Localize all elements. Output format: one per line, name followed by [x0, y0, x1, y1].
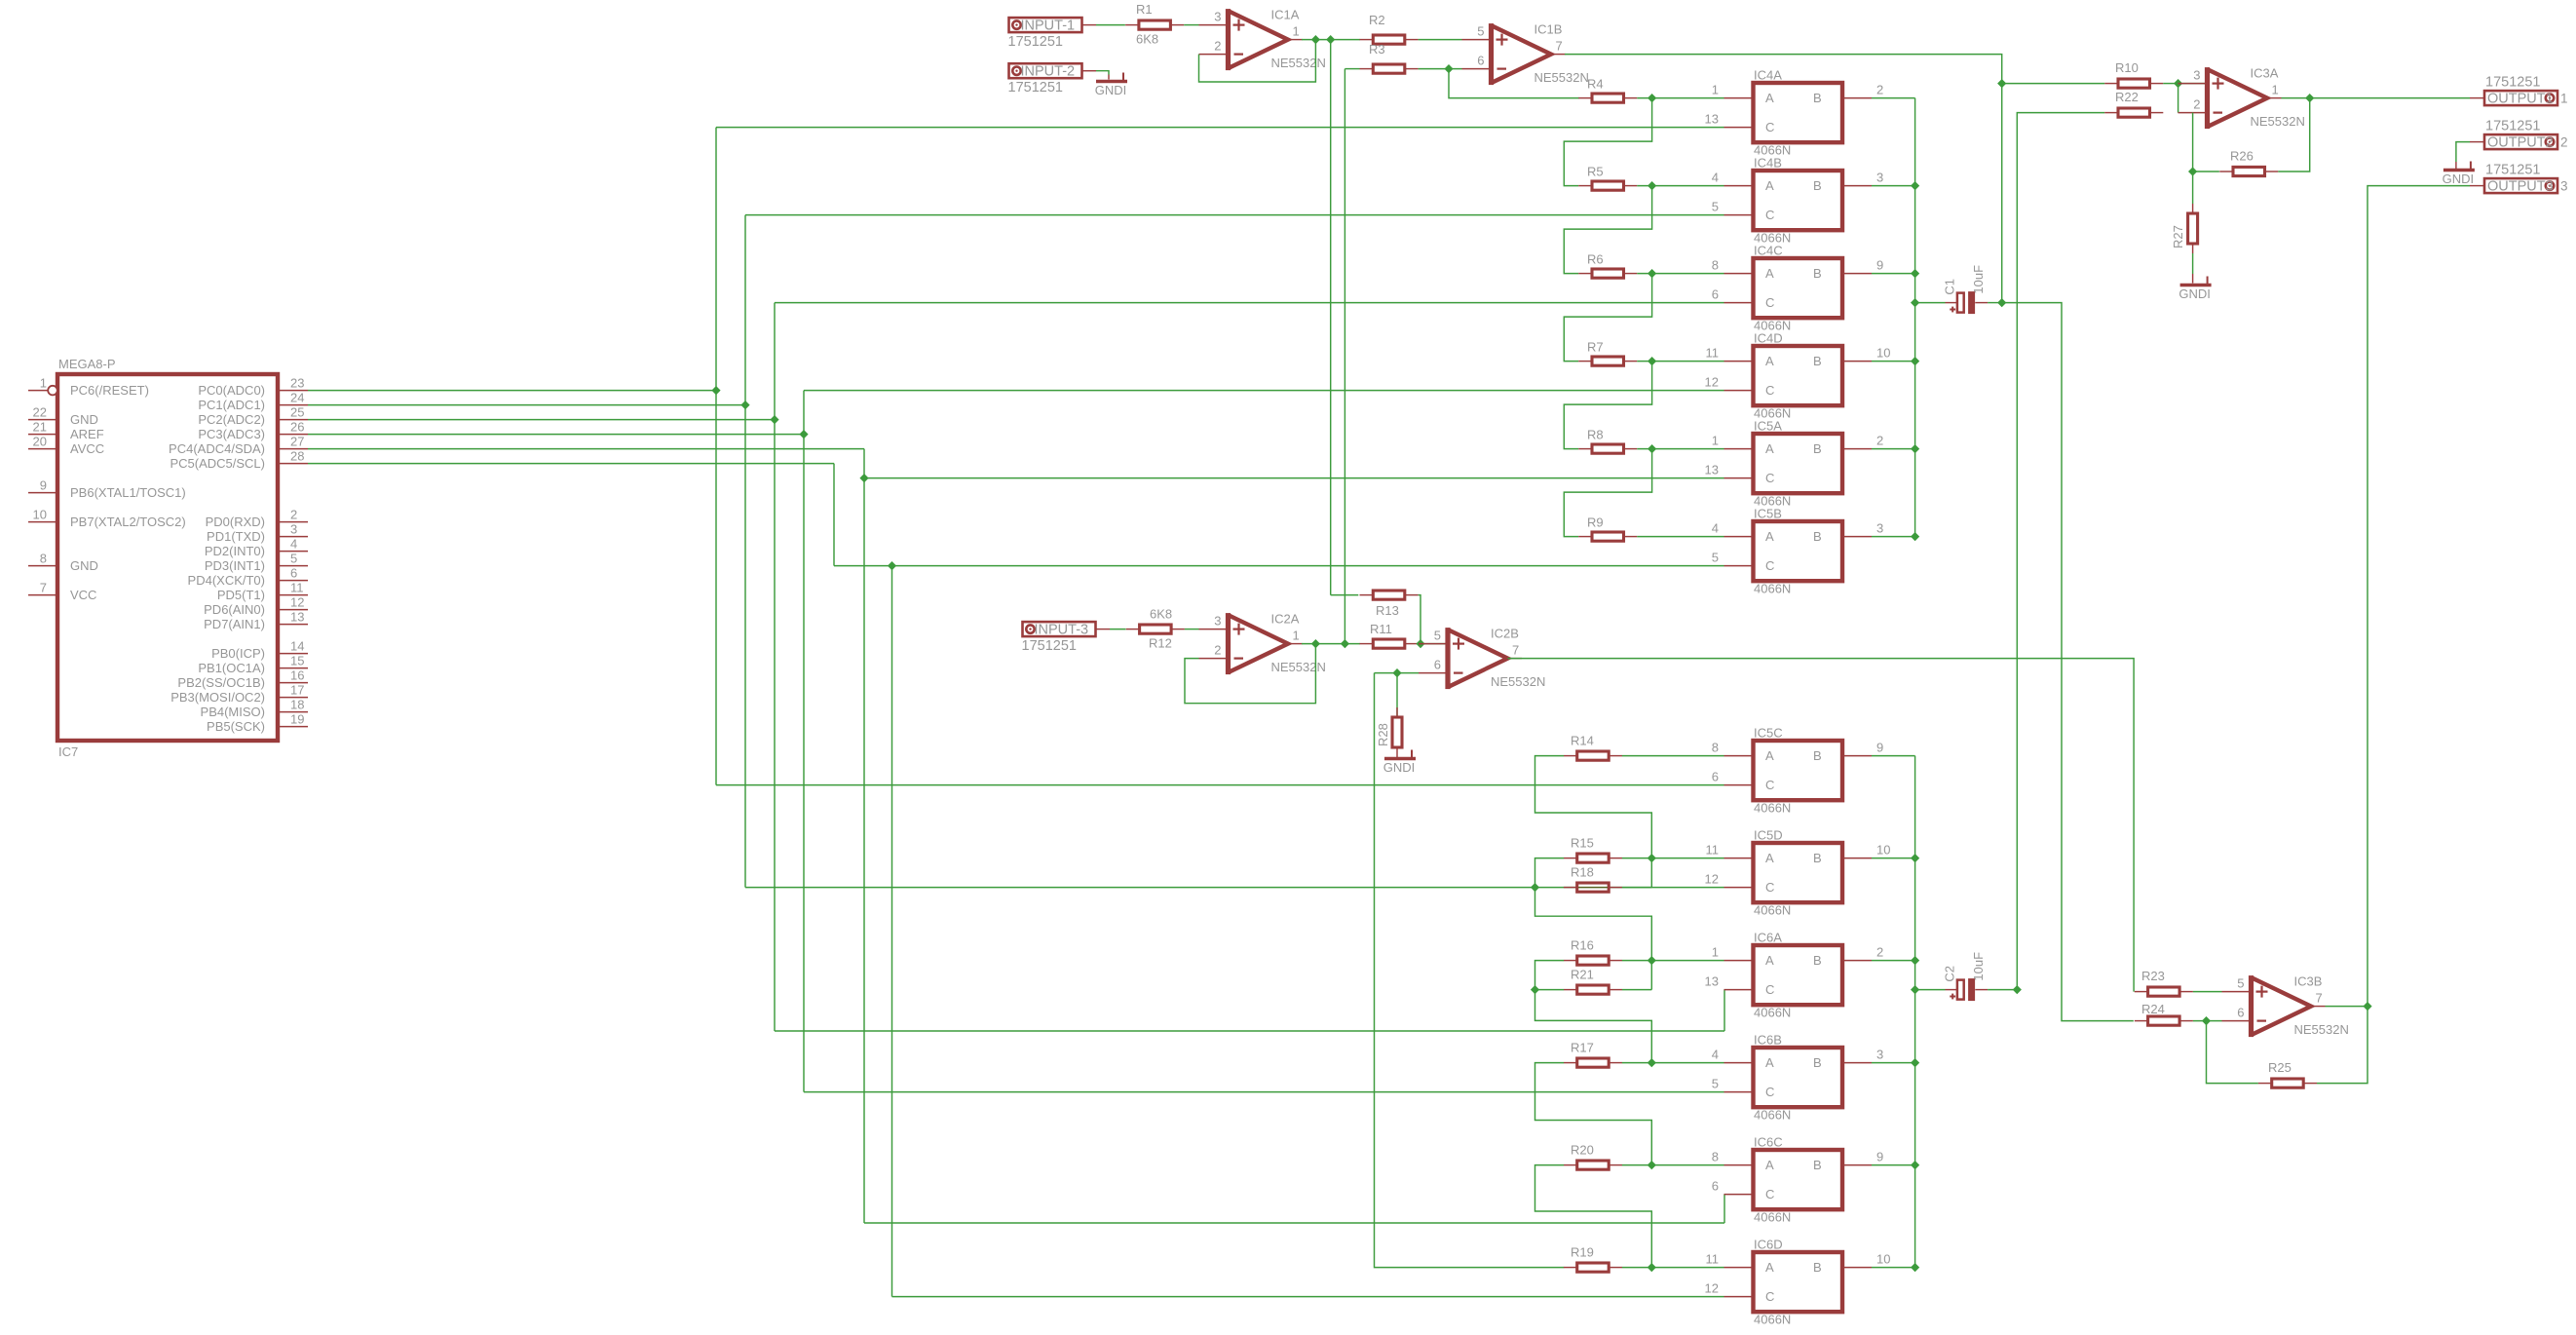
svg-text:R27: R27	[2171, 225, 2185, 248]
svg-text:3: 3	[1214, 614, 1221, 629]
wire OUTPUT2 to ground	[2456, 142, 2470, 162]
svg-text:B: B	[1813, 178, 1822, 193]
resistor R23	[2135, 991, 2148, 993]
wire top mix bus	[1914, 98, 1916, 537]
wire C2 to R22 riser	[1988, 989, 2017, 991]
svg-text:VCC: VCC	[70, 588, 96, 602]
svg-text:12: 12	[1705, 1281, 1719, 1296]
wire ladder jog R6 to R7	[1564, 274, 1651, 362]
wire IC2A out riser to R3	[1344, 69, 1345, 644]
svg-text:IC5A: IC5A	[1754, 419, 1782, 434]
resistor R25	[2258, 1083, 2272, 1085]
wire R9 output to switch	[1637, 536, 1724, 538]
svg-text:4: 4	[1712, 521, 1719, 536]
ground GNDI at OUTPUT2	[2443, 169, 2475, 172]
resistor R27	[2192, 204, 2194, 213]
wire IC4A output to bus	[1872, 97, 1915, 99]
wire IC6A output to bus	[1872, 960, 1915, 962]
svg-text:4066N: 4066N	[1754, 1210, 1791, 1225]
svg-text:1751251: 1751251	[1008, 34, 1063, 50]
svg-text:B: B	[1813, 91, 1822, 105]
svg-text:C: C	[1765, 295, 1774, 310]
resistor R1	[1125, 24, 1139, 26]
junction IC1B pin6 node	[1444, 64, 1453, 73]
svg-text:R17: R17	[1571, 1041, 1594, 1055]
junction IC2B pin6 node	[1392, 668, 1401, 677]
wire IC2A feedback loop	[1185, 644, 1315, 704]
svg-text:C1: C1	[1942, 279, 1956, 295]
svg-text:R10: R10	[2115, 60, 2139, 75]
svg-text:IC5C: IC5C	[1754, 726, 1783, 741]
svg-text:C: C	[1765, 208, 1774, 222]
wire R5 output to switch	[1637, 185, 1724, 187]
svg-text:IC4D: IC4D	[1754, 331, 1783, 346]
junction bottom bus at IC6D	[1911, 1263, 1919, 1272]
svg-text:B: B	[1813, 266, 1822, 281]
junction bus at IC5B	[1911, 532, 1919, 541]
svg-text:PC2(ADC2): PC2(ADC2)	[198, 412, 265, 427]
analog switch IC5C	[1754, 741, 1843, 800]
svg-text:NE5532N: NE5532N	[1271, 56, 1326, 70]
wire R17 input jog	[1535, 1063, 1652, 1165]
svg-text:13: 13	[1705, 112, 1719, 127]
svg-text:10: 10	[1876, 1252, 1890, 1267]
svg-text:IC4B: IC4B	[1754, 156, 1782, 171]
svg-text:10uF: 10uF	[1971, 265, 1986, 294]
wire IC1A out to R13	[1330, 40, 1332, 595]
svg-text:NE5532N: NE5532N	[2251, 114, 2305, 129]
op-amp IC1B	[1492, 25, 1552, 83]
wire R12 to IC2A pin3	[1185, 629, 1199, 630]
svg-text:15: 15	[290, 654, 304, 668]
IC7 pin 10 PB7(XTAL2/TOSC2)	[28, 521, 57, 523]
svg-text:5: 5	[1712, 551, 1719, 565]
svg-text:B: B	[1813, 354, 1822, 368]
wire control net PC5	[308, 463, 834, 465]
svg-text:5: 5	[1712, 1077, 1719, 1091]
resistor R20	[1564, 1164, 1577, 1166]
junction bottom bus at C2	[1911, 985, 1919, 994]
svg-text:NE5532N: NE5532N	[1491, 674, 1545, 689]
svg-text:9: 9	[40, 478, 47, 493]
svg-text:7: 7	[1512, 643, 1519, 658]
svg-text:9: 9	[1876, 741, 1883, 755]
IC7 pin 16 PB2(SS/OC1B)	[278, 682, 308, 684]
svg-text:A: A	[1765, 1158, 1774, 1172]
op-amp IC2A	[1229, 615, 1289, 672]
svg-text:R2: R2	[1369, 13, 1385, 27]
svg-text:5: 5	[2237, 976, 2244, 991]
junction node IC5D A	[1648, 854, 1656, 862]
analog switch IC6B	[1754, 1048, 1843, 1107]
svg-text:6: 6	[1477, 54, 1484, 68]
junction bottom bus at IC6A	[1911, 956, 1919, 965]
IC7 pin 1 PC6(/RESET)	[28, 390, 48, 392]
wire R25 to IC3B output	[2317, 1007, 2368, 1084]
svg-text:6K8: 6K8	[1150, 607, 1172, 622]
svg-text:PD5(T1): PD5(T1)	[217, 588, 265, 602]
wire IC1A feedback loop	[1199, 40, 1316, 82]
IC7 pin 3 PD1(TXD)	[278, 536, 308, 538]
resistor R15	[1564, 858, 1577, 859]
wire ladder jog R8 to R9	[1564, 449, 1651, 537]
svg-text:1751251: 1751251	[2485, 163, 2540, 178]
svg-text:R28: R28	[1376, 723, 1390, 746]
svg-text:10uF: 10uF	[1971, 952, 1986, 981]
wire IC3A output to OUTPUT1	[2282, 97, 2471, 99]
svg-text:R4: R4	[1587, 77, 1604, 92]
svg-text:PC0(ADC0): PC0(ADC0)	[198, 383, 265, 398]
resistor R11	[1360, 643, 1374, 645]
svg-text:PC6(/RESET): PC6(/RESET)	[70, 383, 149, 398]
IC7 pin 2 PD0(RXD)	[278, 521, 308, 523]
svg-text:3: 3	[290, 522, 297, 537]
IC7 pin 26 PC3(ADC3)	[278, 434, 308, 436]
wire control net PC2	[308, 419, 775, 421]
svg-text:8: 8	[40, 552, 47, 566]
wire IC4D output to bus	[1872, 361, 1915, 362]
svg-text:1: 1	[2560, 92, 2568, 106]
svg-text:6: 6	[1712, 287, 1719, 302]
capacitor C1 10uF	[1946, 302, 1957, 304]
resistor R10	[2104, 83, 2118, 85]
svg-text:3: 3	[2193, 68, 2200, 83]
svg-text:1: 1	[1293, 24, 1300, 39]
svg-text:GNDI: GNDI	[2178, 286, 2211, 301]
ground GNDI at INPUT-2	[1096, 80, 1127, 83]
svg-text:2: 2	[1876, 434, 1883, 448]
svg-text:6: 6	[2237, 1006, 2244, 1020]
svg-text:11: 11	[1706, 1252, 1720, 1267]
IC7 pin 15 PB1(OC1A)	[278, 667, 308, 669]
IC7 pin 18 PB4(MISO)	[278, 711, 308, 713]
svg-text:6: 6	[1434, 658, 1441, 672]
IC7 pin 6 PD4(XCK/T0)	[278, 580, 308, 582]
wire ladder jog R7 to R8	[1564, 362, 1651, 449]
wire R24 to IC3B pin6	[2193, 1020, 2222, 1022]
junction IC3B pin6 node	[2202, 1016, 2211, 1025]
wire R11 to IC2B pin5	[1419, 643, 1448, 645]
svg-text:1: 1	[1712, 83, 1719, 97]
IC7 pin 12 PD6(AIN0)	[278, 609, 308, 611]
wire IC5A output to bus	[1872, 448, 1915, 450]
svg-text:R12: R12	[1149, 636, 1172, 651]
svg-text:NE5532N: NE5532N	[1534, 70, 1589, 85]
wire IC1A output net	[1302, 39, 1360, 41]
svg-text:5: 5	[1477, 24, 1484, 39]
resistor R4	[1578, 97, 1592, 99]
wire R25 feedback left leg	[2207, 1021, 2258, 1084]
wire R18 output riser	[1622, 887, 1651, 889]
svg-text:3: 3	[2560, 179, 2568, 194]
resistor R6	[1578, 273, 1592, 275]
wire node to R26	[2193, 171, 2219, 172]
resistor R12	[1126, 629, 1140, 630]
svg-text:IC5B: IC5B	[1754, 507, 1782, 521]
svg-text:R19: R19	[1571, 1245, 1594, 1260]
svg-text:C: C	[1765, 778, 1774, 792]
wire R14 input jog	[1535, 756, 1652, 858]
resistor R21	[1564, 989, 1577, 991]
junction node IC6D A	[1648, 1263, 1656, 1272]
svg-text:IC1A: IC1A	[1271, 8, 1300, 22]
wire control net PC3	[308, 434, 804, 436]
svg-text:R8: R8	[1587, 428, 1604, 442]
wire R21 output riser	[1622, 989, 1651, 991]
junction C1 output node	[1997, 298, 2006, 307]
wire R6 output to switch	[1637, 273, 1724, 275]
svg-text:PD3(INT1): PD3(INT1)	[205, 558, 265, 573]
op-amp IC2B	[1448, 629, 1508, 687]
op-amp IC3A	[2208, 69, 2268, 127]
svg-text:PB7(XTAL2/TOSC2): PB7(XTAL2/TOSC2)	[70, 515, 186, 529]
svg-text:PC5(ADC5/SCL): PC5(ADC5/SCL)	[170, 456, 265, 471]
analog switch IC4C	[1754, 258, 1843, 318]
svg-text:A: A	[1765, 1260, 1774, 1275]
svg-text:B: B	[1813, 953, 1822, 968]
wire IC2B pin6 to R19 line	[1375, 673, 1565, 1268]
svg-text:IC6B: IC6B	[1754, 1033, 1782, 1048]
wire R20 input jog	[1535, 1165, 1652, 1268]
svg-text:R16: R16	[1571, 938, 1594, 953]
svg-text:3: 3	[1876, 171, 1883, 185]
svg-text:6: 6	[1712, 1179, 1719, 1194]
svg-text:R14: R14	[1571, 734, 1594, 748]
svg-text:A: A	[1765, 266, 1774, 281]
svg-text:2: 2	[2560, 135, 2568, 150]
resistor R14	[1564, 755, 1577, 757]
svg-text:4066N: 4066N	[1754, 1108, 1791, 1123]
wire R21 input stub	[1535, 989, 1565, 991]
svg-text:7: 7	[2316, 991, 2323, 1006]
IC7 pin 14 PB0(ICP)	[278, 653, 308, 655]
svg-text:R15: R15	[1571, 836, 1594, 851]
svg-text:C: C	[1765, 471, 1774, 485]
resistor R18	[1564, 887, 1577, 889]
analog switch IC5A	[1754, 434, 1843, 493]
connector OUTPUT2	[2484, 134, 2557, 149]
svg-text:IC4A: IC4A	[1754, 68, 1782, 83]
analog switch IC6A	[1754, 945, 1843, 1005]
IC7 pin 5 PD3(INT1)	[278, 565, 308, 567]
wire control net PC0	[308, 390, 716, 392]
resistor R24	[2135, 1020, 2148, 1022]
junction node R6 out	[1648, 269, 1656, 278]
svg-text:A: A	[1765, 354, 1774, 368]
svg-text:8: 8	[1712, 258, 1719, 273]
svg-text:1: 1	[1293, 629, 1300, 643]
svg-text:A: A	[1765, 441, 1774, 456]
svg-text:11: 11	[1706, 843, 1720, 858]
svg-text:19: 19	[290, 712, 304, 727]
svg-text:4066N: 4066N	[1754, 801, 1791, 816]
wire R22 feed from C2	[2017, 113, 2104, 990]
wire IC3B output	[2326, 1006, 2368, 1008]
resistor R2	[1360, 39, 1374, 41]
svg-text:A: A	[1765, 851, 1774, 865]
svg-text:7: 7	[40, 581, 47, 595]
svg-text:16: 16	[290, 668, 304, 683]
junction C2 output node	[2013, 985, 2022, 994]
svg-text:PB4(MISO): PB4(MISO)	[201, 705, 265, 719]
resistor R22	[2104, 112, 2118, 114]
svg-text:2: 2	[290, 508, 297, 522]
svg-text:C: C	[1765, 558, 1774, 573]
wire IC2B pin6 net	[1375, 672, 1420, 674]
wire R16 output to switch	[1622, 960, 1724, 962]
svg-text:2: 2	[1214, 39, 1221, 54]
resistor R5	[1578, 185, 1592, 187]
wire control net PC1	[308, 404, 745, 406]
svg-text:4066N: 4066N	[1754, 903, 1791, 918]
svg-text:R1: R1	[1136, 2, 1153, 17]
svg-text:13: 13	[1705, 974, 1719, 989]
wire R23 to IC3B pin5	[2193, 991, 2222, 993]
svg-text:R20: R20	[1571, 1143, 1594, 1158]
wire INPUT-1 to R1	[1096, 24, 1125, 26]
svg-text:B: B	[1813, 1158, 1822, 1172]
junction node R5 out	[1648, 181, 1656, 190]
wire bus to C1	[1915, 302, 1946, 304]
analog switch IC4B	[1754, 171, 1843, 230]
svg-text:OUTPUT2: OUTPUT2	[2487, 135, 2554, 151]
wire IC3A pin2 to feedback node	[2192, 113, 2194, 172]
wire R13 to IC2B pin5 node	[1419, 595, 1421, 644]
svg-text:10: 10	[1876, 843, 1890, 858]
svg-text:A: A	[1765, 748, 1774, 763]
junction node R8 out	[1648, 444, 1656, 453]
resistor R3	[1360, 68, 1374, 70]
junction bus at IC5A	[1911, 444, 1919, 453]
svg-text:9: 9	[1876, 1150, 1883, 1164]
svg-text:IC6D: IC6D	[1754, 1238, 1783, 1252]
svg-text:GNDI: GNDI	[1383, 760, 1416, 775]
wire R19 output to switch	[1622, 1267, 1724, 1269]
wire ladder jog R5 to R6	[1564, 186, 1651, 274]
svg-text:GNDI: GNDI	[2443, 172, 2475, 186]
svg-text:22: 22	[33, 405, 47, 420]
svg-text:13: 13	[1705, 463, 1719, 477]
svg-text:B: B	[1813, 1260, 1822, 1275]
connector OUTPUT1	[2484, 91, 2557, 105]
svg-text:NE5532N: NE5532N	[1271, 660, 1326, 674]
resistor R8	[1578, 448, 1592, 450]
svg-text:C2: C2	[1942, 966, 1956, 982]
wire feedback node to R27	[2192, 172, 2194, 204]
wire IC6B output to bus	[1872, 1062, 1915, 1064]
svg-text:R23: R23	[2141, 969, 2165, 983]
svg-text:IC1B: IC1B	[1534, 22, 1563, 37]
connector INPUT-1	[1009, 18, 1082, 32]
wire R26 to IC3A output	[2278, 98, 2309, 172]
wire R14 output to switch	[1622, 755, 1724, 757]
svg-text:R24: R24	[2141, 1002, 2165, 1016]
op-amp IC3B	[2252, 977, 2312, 1035]
svg-text:C: C	[1765, 1187, 1774, 1201]
junction node R4 out	[1648, 94, 1656, 102]
junction IC3A feedback node	[2188, 167, 2197, 175]
svg-text:5: 5	[1712, 200, 1719, 214]
svg-text:4: 4	[1712, 171, 1719, 185]
analog switch IC6D	[1754, 1252, 1843, 1312]
svg-text:B: B	[1813, 529, 1822, 544]
svg-text:4066N: 4066N	[1754, 1313, 1791, 1327]
svg-text:A: A	[1765, 529, 1774, 544]
svg-text:R3: R3	[1369, 42, 1385, 57]
svg-text:1751251: 1751251	[1008, 80, 1063, 95]
IC7 pin 13 PD7(AIN1)	[278, 624, 308, 626]
wire IC6C output to bus	[1872, 1164, 1915, 1166]
svg-text:R5: R5	[1587, 165, 1604, 179]
svg-text:17: 17	[290, 683, 304, 698]
wire R10 to IC3A pin3	[2163, 83, 2178, 85]
svg-text:7: 7	[1556, 39, 1563, 54]
wire R27 to ground	[2192, 253, 2194, 274]
wire R17 output to switch	[1622, 1062, 1724, 1064]
wire R15 output to switch	[1622, 858, 1724, 859]
junction IC3A pin3 node	[2174, 79, 2182, 88]
svg-text:6K8: 6K8	[1136, 32, 1158, 47]
wire R22 riser to pin3	[2178, 84, 2179, 113]
wire R15 input jog	[1535, 858, 1652, 961]
wire bus to C2	[1915, 989, 1946, 991]
wire R7 output to switch	[1637, 361, 1724, 362]
wire R1 to IC1A pin3	[1184, 24, 1198, 26]
svg-text:9: 9	[1876, 258, 1883, 273]
IC7 pin 8 GND	[28, 565, 57, 567]
svg-text:PB2(SS/OC1B): PB2(SS/OC1B)	[177, 675, 265, 690]
junction IC2B pin5 node	[1416, 639, 1424, 648]
svg-text:IC6C: IC6C	[1754, 1135, 1783, 1150]
wire bottom mix bus	[1914, 756, 1916, 1268]
svg-text:R18: R18	[1571, 865, 1594, 880]
svg-text:5: 5	[290, 552, 297, 566]
svg-text:IC3A: IC3A	[2251, 66, 2279, 81]
svg-text:IC2B: IC2B	[1491, 627, 1519, 641]
wire IC4B output to bus	[1872, 185, 1915, 187]
junction node R7 out	[1648, 357, 1656, 365]
wire R16 input jog	[1535, 961, 1652, 1063]
svg-text:4: 4	[1712, 1048, 1719, 1062]
wire ladder jog R4 to R5	[1564, 98, 1651, 186]
wire INPUT-2 to ground	[1096, 71, 1109, 75]
svg-text:20: 20	[33, 435, 47, 449]
wire C1 node to R24 branch	[2002, 303, 2134, 1021]
svg-text:12: 12	[1705, 872, 1719, 887]
svg-text:PB1(OC1A): PB1(OC1A)	[198, 661, 265, 675]
svg-text:A: A	[1765, 953, 1774, 968]
svg-text:R13: R13	[1376, 603, 1399, 618]
svg-text:C: C	[1765, 120, 1774, 134]
IC7 pin 28 PC5(ADC5/SCL)	[278, 463, 308, 465]
svg-text:1: 1	[2272, 83, 2279, 97]
svg-text:IC7: IC7	[58, 744, 78, 759]
svg-text:R26: R26	[2230, 149, 2254, 164]
svg-text:26: 26	[290, 420, 304, 435]
wire IC4C output to bus	[1872, 273, 1915, 275]
svg-text:23: 23	[290, 376, 304, 391]
ground GNDI at R27	[2180, 284, 2212, 286]
svg-text:21: 21	[33, 420, 47, 435]
IC7 pin 20 AVCC	[28, 448, 57, 450]
connector OUTPUT3	[2484, 178, 2557, 193]
svg-text:PC3(ADC3): PC3(ADC3)	[198, 427, 265, 441]
svg-text:28: 28	[290, 449, 304, 464]
resistor R13	[1360, 594, 1374, 596]
analog switch IC4A	[1754, 83, 1843, 142]
analog switch IC6C	[1754, 1150, 1843, 1209]
svg-text:PB3(MOSI/OC2): PB3(MOSI/OC2)	[170, 690, 265, 705]
